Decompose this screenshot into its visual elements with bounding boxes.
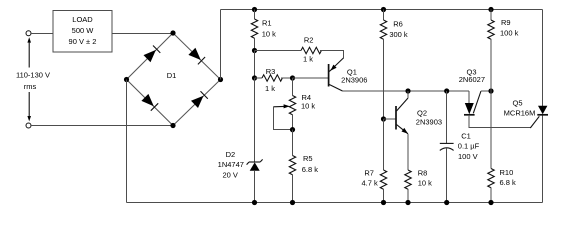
- svg-text:D1: D1: [167, 71, 177, 80]
- wire right edge down to Q5: [542, 10, 544, 107]
- wire R4 wiper loop: [273, 107, 292, 130]
- resistor R3: [255, 67, 293, 93]
- wire load to bridge top node: [112, 32, 173, 34]
- svg-text:4.7 k: 4.7 k: [361, 178, 378, 187]
- transistor Q1 2N3906: [329, 58, 368, 91]
- load box: [53, 11, 112, 53]
- resistor R2: [255, 35, 344, 63]
- capacitor C1: [440, 91, 480, 203]
- svg-text:Q2: Q2: [417, 108, 427, 117]
- svg-text:500 W: 500 W: [72, 26, 95, 35]
- label 110-130 V rms: [16, 70, 50, 91]
- wire T2 to bridge bottom node: [31, 125, 173, 127]
- svg-text:R2: R2: [304, 35, 314, 44]
- svg-text:1N4747: 1N4747: [218, 160, 244, 169]
- terminal T1 (top input): [26, 31, 31, 36]
- node R3/R4 junction: [290, 75, 295, 80]
- node bridge top junction: [170, 30, 175, 35]
- node top rail R1: [252, 7, 257, 12]
- node bottom rail R5: [290, 200, 295, 205]
- bridge rectifier D1 diamond: [127, 33, 221, 126]
- svg-text:10 k: 10 k: [301, 101, 315, 110]
- svg-text:D2: D2: [226, 150, 236, 159]
- svg-text:R7: R7: [364, 169, 374, 178]
- potentiometer R4: [289, 78, 315, 130]
- svg-text:R9: R9: [501, 18, 511, 27]
- zener diode D2: [218, 150, 263, 203]
- node bottom rail R8: [405, 200, 410, 205]
- node bottom rail R7: [381, 200, 386, 205]
- node top rail R6: [381, 7, 386, 12]
- svg-text:6.8 k: 6.8 k: [302, 165, 319, 174]
- wire R1 junction down to R3 junction: [254, 51, 256, 79]
- transistor Q2 2N3903: [384, 91, 443, 134]
- input voltage arrow down: [27, 92, 31, 121]
- wire top rail: [221, 9, 543, 11]
- wire R2 to Q1 emitter: [342, 51, 344, 59]
- wire T1 to load: [31, 32, 53, 34]
- svg-text:rms: rms: [24, 82, 37, 91]
- svg-text:R10: R10: [500, 168, 514, 177]
- svg-text:300 k: 300 k: [389, 30, 408, 39]
- svg-text:1 k: 1 k: [265, 84, 275, 93]
- node bridge left junction: [124, 77, 129, 82]
- R4 wiper arrow: [273, 104, 290, 108]
- resistor R6: [380, 10, 408, 120]
- svg-text:R5: R5: [303, 154, 313, 163]
- svg-text:10 k: 10 k: [418, 178, 432, 187]
- svg-text:6.8 k: 6.8 k: [500, 178, 517, 187]
- wire Q3 anode drop: [468, 91, 470, 103]
- node top rail R9: [488, 7, 493, 12]
- node bottom rail C1: [444, 200, 449, 205]
- svg-text:2N3903: 2N3903: [416, 118, 442, 127]
- svg-text:100 k: 100 k: [500, 29, 519, 38]
- svg-text:110-130 V: 110-130 V: [16, 70, 50, 79]
- diode D1c (lower-left): [141, 94, 158, 111]
- wire Q3 cathode to Q5 gate: [469, 115, 539, 128]
- wire R9 junction down to R10: [490, 91, 492, 169]
- svg-text:R8: R8: [418, 169, 428, 178]
- SCR Q5 MCR16M: [504, 99, 548, 118]
- wire bridge right node riser to top rail: [220, 10, 222, 80]
- terminal T2 (bottom input): [26, 123, 31, 128]
- node R9/R10 gate junction: [488, 88, 493, 93]
- node bridge right junction: [218, 77, 223, 82]
- svg-text:R1: R1: [262, 18, 272, 27]
- svg-text:90 V ± 2: 90 V ± 2: [69, 37, 97, 46]
- node R4 bottom junction: [290, 127, 295, 132]
- node C1 top junction: [444, 88, 449, 93]
- svg-text:20 V: 20 V: [222, 170, 237, 179]
- svg-text:LOAD: LOAD: [72, 15, 93, 24]
- diode D1d (lower-right): [191, 91, 208, 108]
- wire bottom rail: [127, 202, 543, 204]
- wire R3 junction down to D2: [254, 78, 256, 162]
- node bridge bottom junction: [170, 123, 175, 128]
- node bottom rail D2: [252, 200, 257, 205]
- svg-text:10 k: 10 k: [262, 30, 276, 39]
- node bottom rail R10: [488, 200, 493, 205]
- input voltage arrow up: [27, 37, 31, 67]
- svg-text:MCR16M: MCR16M: [504, 109, 536, 118]
- resistor R7: [361, 119, 386, 203]
- resistor R9: [488, 10, 519, 92]
- wire bridge left node drop to bottom rail: [126, 80, 128, 203]
- svg-text:100 V: 100 V: [458, 152, 478, 161]
- svg-text:0.1 µF: 0.1 µF: [458, 142, 480, 151]
- resistor R5: [289, 130, 318, 203]
- svg-text:C1: C1: [461, 132, 471, 141]
- node Q2 base junction: [381, 116, 386, 121]
- resistor R1: [251, 10, 276, 51]
- diode D1a (upper-left): [144, 46, 161, 63]
- label D1: [167, 71, 177, 80]
- node R1/R2 junction: [252, 48, 257, 53]
- node Q2 collector junction: [405, 88, 410, 93]
- svg-text:2N6027: 2N6027: [459, 75, 485, 84]
- node R3 junction: [252, 75, 257, 80]
- svg-text:Q5: Q5: [512, 99, 522, 108]
- svg-text:1 k: 1 k: [303, 55, 313, 64]
- wire base Q1: [293, 77, 329, 79]
- PUT Q3 2N6027: [459, 68, 491, 115]
- resistor R10: [488, 168, 516, 202]
- diode D1b (upper-right): [188, 48, 205, 65]
- svg-text:R6: R6: [393, 20, 403, 29]
- wire Q1 collector node line: [343, 90, 470, 92]
- resistor R8: [405, 134, 432, 203]
- wire Q5 cathode to bottom rail: [542, 115, 544, 203]
- svg-text:2N3906: 2N3906: [341, 75, 367, 84]
- svg-text:R3: R3: [266, 67, 276, 76]
